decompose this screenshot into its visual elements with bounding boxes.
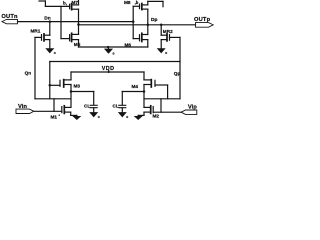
svg-text:o: o — [113, 51, 115, 55]
svg-text:M4: M4 — [132, 84, 139, 89]
node Qp wire — [179, 37, 181, 98]
svg-text:M7: M7 — [72, 0, 79, 5]
node dot MR1 drain on Dn — [49, 20, 52, 23]
wire Vip to M2 gate — [153, 111, 181, 113]
input port Vip — [181, 110, 197, 114]
transistor M2 — [138, 106, 153, 116]
capacitor CL right — [119, 105, 126, 112]
ground CL right — [118, 112, 127, 117]
svg-text:VDD: VDD — [102, 66, 115, 72]
ground M2 — [134, 116, 143, 120]
transistor M8 — [133, 1, 163, 34]
node Qn wire — [35, 37, 71, 111]
wire Dp horizontal — [79, 24, 196, 26]
svg-text:Qn: Qn — [25, 71, 32, 76]
svg-text:*: * — [59, 114, 61, 118]
svg-text:OUTp: OUTp — [194, 17, 211, 23]
wire cross couple M3 gate to MR2 gate — [50, 62, 180, 99]
transistor MR1 — [35, 22, 50, 49]
svg-text:b,: b, — [63, 1, 67, 6]
node dot M3 drain — [70, 90, 73, 93]
svg-text:CL: CL — [84, 104, 90, 109]
transistor M6 — [133, 33, 148, 47]
svg-text:o: o — [126, 115, 128, 119]
node dot left drains on Dp — [77, 23, 80, 26]
wire M4 gate to Qp node — [144, 85, 180, 112]
svg-text:o: o — [165, 51, 167, 55]
svg-text:Vin: Vin — [18, 104, 27, 110]
VDD rail — [71, 71, 144, 80]
wire to CL left — [71, 92, 94, 105]
wire to CL right — [122, 92, 144, 105]
svg-text:Qp: Qp — [174, 71, 181, 76]
svg-text:o: o — [54, 51, 56, 55]
transistor M4 — [144, 80, 168, 108]
svg-text:OUTn: OUTn — [1, 14, 18, 20]
svg-text:MR1: MR1 — [31, 28, 41, 33]
ground MR1 — [45, 48, 54, 53]
ground MR2 — [157, 48, 166, 53]
node dot right gate line on Dn — [132, 20, 135, 23]
svg-text:o: o — [98, 115, 100, 119]
wire common source M5 M6 — [79, 46, 148, 48]
wire Vin to M1 gate — [34, 110, 62, 112]
svg-text:CL: CL — [113, 104, 119, 109]
node dot right drains on Dp — [147, 24, 150, 27]
output port OUTn — [2, 19, 18, 23]
transistor MR2 — [161, 25, 180, 48]
wire ground stub latch — [108, 47, 110, 49]
svg-text:M2: M2 — [153, 114, 160, 119]
wire Dn horizontal — [18, 21, 134, 23]
svg-text:MR2: MR2 — [163, 29, 173, 34]
right cross-couple gate line — [132, 6, 134, 38]
svg-text:M1: M1 — [51, 114, 58, 119]
transistor M3 — [50, 80, 71, 108]
svg-text:M8: M8 — [124, 0, 131, 5]
ground latch tail — [104, 49, 113, 54]
input port Vin — [16, 109, 34, 113]
transistor M5 — [61, 33, 79, 47]
node dot M3 gate tap — [49, 84, 52, 87]
left cross-couple gate line — [60, 6, 62, 38]
svg-text:Dp: Dp — [151, 17, 157, 23]
node dot M4 drain — [143, 90, 146, 93]
output port OUTp — [196, 23, 214, 28]
svg-text:M3: M3 — [74, 84, 81, 89]
transistor M7 — [39, 0, 79, 34]
svg-text:,b: ,b — [135, 0, 139, 5]
capacitor CL left — [90, 105, 97, 112]
ground M1 — [72, 116, 81, 120]
ground CL left — [89, 112, 98, 117]
svg-text:Vip: Vip — [188, 104, 197, 110]
transistor M1 — [62, 106, 77, 116]
node dot MR2 drain on Dp — [160, 24, 163, 27]
